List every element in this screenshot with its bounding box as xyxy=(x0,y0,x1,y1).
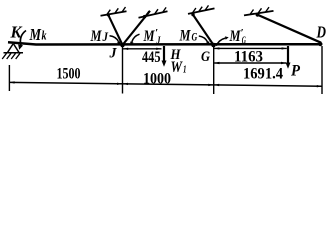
wall 2 hatching xyxy=(146,7,167,16)
M'J arrowhead xyxy=(130,42,133,46)
wall 1 hatching xyxy=(107,7,126,15)
support K ground hatching xyxy=(2,53,20,59)
dimension line 445 (J to H) xyxy=(123,48,162,50)
svg-text:D: D xyxy=(316,23,326,42)
svg-text:M: M xyxy=(229,28,241,45)
MJ arrowhead xyxy=(117,41,120,45)
svg-text:P: P xyxy=(290,63,300,80)
pin dot at J xyxy=(120,43,125,48)
svg-text:1691.4: 1691.4 xyxy=(243,66,283,83)
svg-text:G: G xyxy=(201,49,210,65)
MG arrowhead xyxy=(206,41,209,45)
moment Mk arrowhead xyxy=(18,44,23,49)
moment arrow MG (left of G) xyxy=(199,36,208,42)
bottom chain dimension line K to D xyxy=(9,82,322,86)
pin dot at D xyxy=(318,42,322,46)
beam K-D xyxy=(8,42,322,44)
svg-text:J: J xyxy=(109,46,117,62)
chain arrowheads at J tick xyxy=(117,83,122,85)
support K base line xyxy=(4,52,24,54)
force W1 arrow at H xyxy=(163,46,165,62)
strut from wall 3 to G xyxy=(193,14,214,45)
strut from wall 2 to J xyxy=(123,11,151,45)
wall 2 (anchor of right strut at J) xyxy=(139,11,168,18)
force P arrow xyxy=(287,46,289,64)
wall 1 (anchor of left strut at J) xyxy=(101,11,127,16)
wall 3 (anchor of strut at G) xyxy=(188,8,215,14)
wall 4 hatching xyxy=(250,7,269,14)
extension line below K xyxy=(8,65,10,91)
moment arrow M'G (right of G) xyxy=(216,38,225,46)
svg-text:M: M xyxy=(179,28,191,45)
svg-text:M: M xyxy=(143,28,155,45)
svg-text:1000: 1000 xyxy=(143,71,171,88)
moment arrow M'J (right of J) xyxy=(132,34,140,42)
M'G arrowhead xyxy=(225,36,229,39)
svg-text:k: k xyxy=(42,28,47,43)
strut from wall 4 to D xyxy=(257,15,321,43)
extension line below J xyxy=(122,46,124,94)
svg-text:J: J xyxy=(102,29,109,44)
svg-text:1500: 1500 xyxy=(57,66,81,83)
svg-text:W: W xyxy=(171,59,184,76)
dimension line 1691.4 (G to P) xyxy=(214,62,286,64)
svg-text:J: J xyxy=(156,36,162,47)
strut from wall 1 to J xyxy=(108,14,123,45)
svg-text:M: M xyxy=(90,28,102,45)
svg-text:445: 445 xyxy=(142,49,161,66)
moment arc Mk at K xyxy=(20,31,26,46)
dimension line 1163 (G to P) xyxy=(214,47,287,49)
svg-text:K: K xyxy=(10,23,24,42)
pin dot at G xyxy=(211,43,216,48)
chain arrowhead at D end xyxy=(317,85,322,87)
extension line below D xyxy=(321,46,323,94)
chain arrowheads at G tick xyxy=(208,84,213,86)
chain arrowhead at K end xyxy=(10,81,15,83)
svg-text:1: 1 xyxy=(183,65,187,76)
svg-text:G: G xyxy=(242,36,247,47)
svg-text:G: G xyxy=(192,30,198,44)
pin support K triangle xyxy=(8,44,20,53)
moment arrow MJ (left of J) xyxy=(110,36,119,42)
wall 3 hatching xyxy=(192,5,208,13)
wall 4 (anchor of strut at D) xyxy=(244,11,274,16)
svg-text:M: M xyxy=(29,25,42,44)
extension line below G xyxy=(213,46,215,94)
